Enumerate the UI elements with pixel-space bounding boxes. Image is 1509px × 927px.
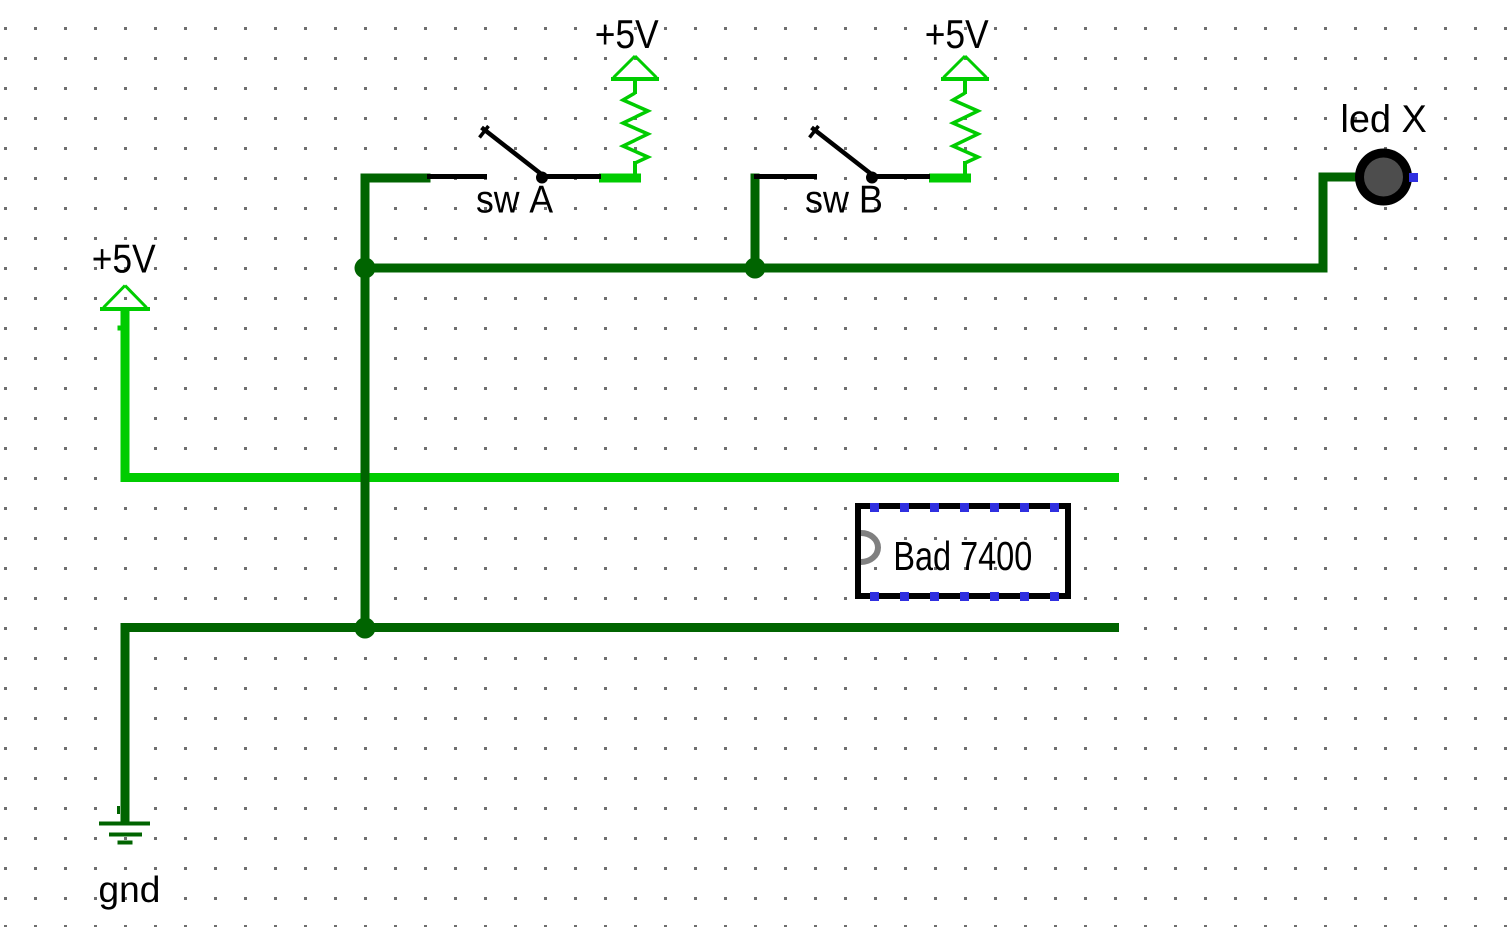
switch sw A: pivot blob [536,172,548,184]
LED X blue pin [1409,173,1418,182]
label +5V for VCC2 [597,20,659,48]
ground symbol GND bars [99,806,150,845]
switch sw A: lever diagonal [482,128,546,178]
resistor R2 terminal stub [929,174,971,183]
power symbol VCC2 base bar [611,77,659,81]
chip U1 notch (gray half circle) [861,533,878,562]
power symbol +5V VCC1 (left) triangle [104,286,147,308]
wire dark-green bottom horizontal run y=628 [121,623,1120,632]
label Bad 7400 (chip name) [896,541,1031,571]
resistor R1 top lead [633,80,637,94]
label sw A [477,186,553,213]
power symbol VCC1 base bar [100,307,150,311]
junction J3 at (365,628) [355,618,376,639]
wire dark-green vertical x=1323 up to LED row [1319,173,1328,273]
wire dark-green middle horizontal run y=268 [361,264,1328,273]
switch sw B: lever diagonal [812,128,876,178]
label sw B [806,186,881,213]
wire VCC1 stem vertical (bright green, x=125) [121,311,130,478]
label +5V for VCC1 [94,245,156,273]
wire dark-green vertical from sw B left terminal down to y=268 [751,174,760,273]
wire net VCC horizontal run y=478 (bright green) [121,473,1120,482]
resistor R2 top lead [963,80,967,94]
power symbol VCC3 base bar [941,77,989,81]
resistor R1 bottom lead [633,161,637,175]
wire dark-green vertical x=365 from y=178 to y=628 [361,174,370,633]
switch sw A: contact tick [480,126,489,138]
switch sw A: right black wire [544,174,601,179]
switch sw B: right black wire [874,174,930,179]
switch sw B: contact tick [810,126,819,138]
power symbol +5V VCC2 (above R1) [614,56,657,78]
label led X [1343,104,1426,132]
pin tick on VCC1 stem [118,326,121,331]
junction J1 at (365,268) [355,258,376,279]
wire dark-green vertical x=125 down to ground [121,623,130,823]
power symbol +5V VCC3 (above R2) [944,56,987,78]
resistor R1 terminal stub [599,174,641,183]
chip U1 bottom pins (blue) [870,592,1059,601]
resistor R2 bottom lead [963,161,967,175]
resistor R2 pull-up (bright green zigzag at x=965) [953,93,978,163]
chip U1 Bad 7400 body outline [858,506,1068,596]
switch sw A: left black wire [427,174,487,179]
wire dark-green horizontal to sw A left terminal (y=178) [361,174,431,183]
label +5V for VCC3 [927,20,989,48]
resistor R1 pull-up (bright green zigzag at x=635) [623,93,648,163]
LED X outer ring [1355,149,1412,206]
chip U1 top pins (blue) [870,503,1059,512]
label gnd [100,876,158,910]
LED X inner disc [1364,158,1403,197]
junction J2 at (755,268) [745,258,766,279]
wire dark-green horizontal into LED [1319,173,1358,182]
switch sw B: left black wire [754,174,817,179]
switch sw B: pivot blob [866,172,878,184]
